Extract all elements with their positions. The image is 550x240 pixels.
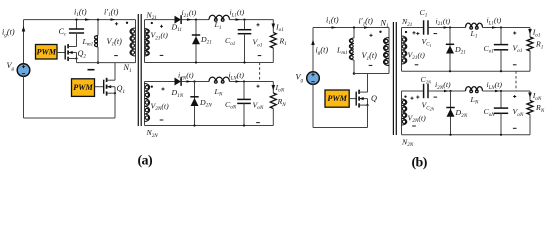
junction dot C_o1 bottom	[243, 61, 245, 63]
svg-text:i1(t): i1(t)	[326, 15, 339, 26]
wire: outputN bottom rail (b)	[402, 134, 531, 136]
plus mark V_oN (b)	[513, 95, 516, 98]
wire: (b) output1 top rail segment 1	[402, 27, 423, 29]
svg-text:PWM: PWM	[36, 47, 56, 56]
svg-text:ig(t): ig(t)	[2, 28, 15, 39]
wire: Q drain riser (b)	[367, 74, 369, 93]
wire: (b) output1 top rail segment 3	[483, 27, 531, 29]
svg-text:VC1: VC1	[422, 37, 432, 48]
junction dot L_m1 bottom	[97, 61, 100, 64]
svg-text:iL1(t): iL1(t)	[230, 8, 245, 19]
svg-text:N21: N21	[401, 17, 413, 28]
svg-text:i2N(t): i2N(t)	[435, 80, 451, 91]
svg-text:L1: L1	[214, 20, 222, 31]
wire: (b) left rail lower	[312, 84, 314, 127]
capacitor C_oN (b)	[494, 107, 508, 109]
svg-text:Q: Q	[371, 94, 377, 103]
minus mark V_2N (b)	[412, 125, 416, 127]
svg-text:V21(t): V21(t)	[151, 31, 169, 42]
svg-text:i21(t): i21(t)	[182, 8, 197, 19]
svg-text:R1: R1	[535, 40, 544, 51]
wire: Q source drop (b)	[367, 105, 369, 127]
current arrow i_21(t)	[187, 18, 192, 21]
junction dot D2N top (b)	[449, 90, 451, 92]
wire: (b) primary bottom wire	[354, 73, 389, 75]
secondary N_21 polarity dot (a)	[151, 22, 153, 24]
svg-text:iLN(t): iLN(t)	[229, 71, 245, 82]
current arrow I_o1 (b)	[528, 29, 532, 35]
junction dot C_oN top (b)	[500, 90, 502, 92]
transistor Q2	[57, 52, 65, 54]
wire: output1 top rail segment 2 (a)	[182, 19, 210, 21]
diode D2N (b)	[446, 107, 454, 109]
wire: (b) primary bottom rail	[313, 127, 368, 129]
svg-text:VoN: VoN	[253, 100, 264, 111]
PWM block 1 (a)	[36, 45, 58, 60]
wire: D2N branch (b)	[450, 91, 452, 135]
current arrow i_LN(t) (b)	[495, 90, 500, 93]
wire: outputN bottom rail (a)	[145, 125, 274, 127]
svg-text:IoN: IoN	[275, 83, 285, 94]
transformer primary winding spine (a)	[135, 20, 137, 63]
secondary winding N_21 coil (b)	[402, 36, 407, 64]
wire: (a) primary bottom wire	[77, 62, 136, 64]
svg-text:D1N: D1N	[171, 88, 184, 99]
diode D1N	[175, 78, 181, 86]
minus mark V_2N (a)	[160, 119, 164, 121]
svg-text:N2N: N2N	[146, 128, 159, 139]
secondary winding N_2N coil (b)	[402, 99, 407, 125]
wire: Q2 source to primary bottom wire	[76, 59, 78, 63]
svg-text:VC2N: VC2N	[422, 101, 435, 112]
svg-text:ig(t): ig(t)	[316, 45, 329, 56]
wire: (a) left rail upper	[23, 20, 25, 64]
svg-text:L1: L1	[470, 29, 478, 40]
svg-text:i′1(t): i′1(t)	[359, 17, 374, 28]
svg-text:i1(t): i1(t)	[74, 7, 87, 18]
current arrow I_oN (b)	[528, 93, 532, 99]
junction dot C_o1 top (b)	[500, 26, 502, 28]
wire: C_o1 branch lower (a)	[244, 34, 246, 63]
svg-text:Q1: Q1	[117, 84, 126, 95]
wire: D21 branch (b)	[449, 28, 451, 72]
wire: outputN top rail segment 3 (a)	[230, 81, 274, 83]
diode D2N	[190, 96, 198, 98]
wire: (b) outputN top rail segment 1	[402, 90, 423, 92]
svg-text:VoN: VoN	[513, 107, 524, 118]
junction dot D21 bottom (b)	[449, 70, 451, 72]
primary polarity dot (a)	[126, 22, 128, 24]
svg-text:PWM: PWM	[327, 94, 347, 103]
junction dot L_m1 top	[97, 19, 99, 21]
diode D21	[192, 34, 200, 36]
wire: Q1 drain riser	[114, 63, 116, 81]
wire: outputN right rail upper (b)	[529, 91, 531, 101]
wire: D2N branch (a)	[194, 82, 196, 126]
svg-text:(a): (a)	[138, 154, 153, 169]
svg-text:D2N: D2N	[199, 98, 212, 109]
wire: C_oN branch upper (b)	[500, 91, 502, 108]
wire: outputN right rail lower (a)	[272, 109, 274, 126]
minus mark V_21 (b)	[415, 64, 419, 66]
inductor L_m1 (a)	[94, 36, 98, 47]
junction dot D21 bottom	[195, 61, 197, 63]
svg-text:V21(t): V21(t)	[408, 50, 426, 61]
svg-text:V2N(t): V2N(t)	[408, 113, 427, 124]
plus mark V_o1 (b)	[513, 31, 516, 34]
filter inductor L1 (a)	[209, 15, 230, 19]
svg-text:LN: LN	[470, 95, 479, 106]
plus mark V_oN (a)	[256, 85, 259, 88]
minus mark V_1 (b)	[369, 64, 373, 66]
wire: output1 top rail segment 1 (a)	[145, 19, 175, 21]
capacitor C_oN (a)	[237, 98, 251, 100]
junction dot C_oN bottom	[243, 124, 245, 126]
junction dot C_oN bottom (b)	[500, 134, 502, 136]
junction dot C_o1 top	[243, 19, 245, 21]
svg-text:V1(t): V1(t)	[107, 37, 123, 48]
svg-text:iLN(t): iLN(t)	[487, 80, 503, 91]
plus mark V_1 (a)	[115, 22, 118, 25]
clamp capacitor C_c branch wire upper	[76, 20, 78, 29]
junction dot C_c top	[75, 19, 77, 21]
capacitor C_o1 (b)	[494, 44, 508, 46]
wire: (a) bottom rail	[24, 117, 116, 119]
current arrow i_1(t) (a)	[85, 18, 90, 21]
current arrow i_1p(t) (b)	[364, 26, 369, 29]
wire: (b) input top rail	[313, 27, 389, 29]
plus mark V_21 (a)	[160, 25, 163, 28]
wire: Q1 source to bottom rail	[114, 93, 116, 118]
wire: C_oN branch lower (a)	[243, 103, 245, 125]
svg-text:i21(t): i21(t)	[436, 16, 451, 27]
svg-text:N2N: N2N	[401, 137, 414, 148]
svg-text:RN: RN	[535, 103, 545, 114]
wire: (a) input top rail	[24, 19, 136, 21]
svg-text:i′1(t): i′1(t)	[104, 7, 119, 18]
junction dot D21 top	[195, 19, 197, 21]
svg-text:V1(t): V1(t)	[362, 51, 378, 62]
filter inductor L1 (b)	[466, 23, 483, 27]
plus mark V_2N (b)	[410, 97, 413, 100]
junction dot L_m1 bottom (b)	[353, 72, 356, 75]
wire: output1 top rail segment 3 (a)	[230, 19, 274, 21]
secondary N_2N polarity dot (b)	[404, 95, 406, 97]
svg-text:RN: RN	[277, 97, 287, 108]
junction dot D2N bottom	[193, 124, 195, 126]
minus mark V_C1 (b)	[434, 33, 438, 35]
svg-text:Io1: Io1	[532, 28, 541, 39]
wire: C_o1 branch upper (a)	[244, 20, 246, 30]
current arrow i_1(t) (b)	[332, 26, 337, 29]
diode D21 (b)	[446, 43, 454, 45]
wire: C_o1 branch upper (b)	[500, 28, 502, 45]
svg-text:i2N(t): i2N(t)	[178, 71, 194, 82]
load resistor R_N (a)	[270, 93, 276, 109]
wire: (b) output1 top rail segment 2	[429, 27, 466, 29]
voltage source V_g (a)	[17, 64, 30, 77]
secondary winding N_21 coil (a)	[145, 29, 150, 57]
wire: outputN right rail upper (a)	[272, 82, 274, 94]
svg-text:D21: D21	[200, 35, 212, 46]
current arrow i_21(t) (b)	[444, 26, 449, 29]
transistor Q (b)	[349, 98, 356, 100]
minus mark V_21 (a)	[160, 54, 164, 56]
wire: C_c to Q2 drain	[76, 33, 78, 47]
wire: outputN right rail lower (b)	[529, 115, 531, 135]
wire: L_m1 (b) bottom stub	[353, 60, 355, 74]
svg-text:N1: N1	[123, 63, 132, 74]
svg-text:D21: D21	[454, 45, 466, 56]
load resistor R1 (a)	[270, 33, 276, 49]
isolated minus mark below primary bottom wire	[88, 69, 95, 71]
junction dot L_m1 top (b)	[353, 26, 355, 28]
svg-text:Vg: Vg	[7, 61, 15, 72]
minus mark V_oN (b)	[513, 127, 517, 129]
dashed link between output stages (b)	[515, 71, 517, 91]
wire: (b) left rail upper	[312, 28, 314, 73]
wire: C_oN branch lower (b)	[500, 113, 502, 134]
PWM block 2 (a)	[72, 79, 95, 97]
dashed link between output stages (a)	[259, 63, 261, 82]
wire: L_m1 bottom stub	[97, 47, 99, 63]
plus mark V_CN (b)	[416, 96, 419, 99]
magnetizing inductor L_m1 (b) top stub	[353, 28, 355, 39]
svg-text:LN: LN	[214, 87, 223, 98]
current arrow i_2N(t)	[187, 80, 192, 83]
minus mark V_oN (a)	[256, 122, 260, 124]
secondary winding N_2N spine (b)	[401, 91, 403, 135]
svg-text:C1: C1	[420, 8, 428, 19]
current arrow i_1p(t) (a)	[111, 18, 116, 21]
svg-text:Io1: Io1	[275, 22, 284, 33]
plus mark V_C1 (b)	[416, 32, 419, 35]
junction dot C_oN top	[243, 80, 245, 82]
svg-text:IoN: IoN	[532, 91, 542, 102]
plus mark V_o1 (a)	[256, 23, 259, 26]
secondary winding N_21 spine (b)	[401, 28, 403, 72]
secondary N_2N polarity dot (a)	[151, 85, 153, 87]
svg-text:D11: D11	[171, 22, 183, 33]
svg-text:iL1(t): iL1(t)	[487, 16, 502, 27]
transformer core (b)	[392, 22, 394, 135]
minus mark V_o1 (a)	[258, 55, 262, 57]
transformer primary coil (b)	[384, 38, 389, 66]
plus mark V_2N (a)	[161, 87, 164, 90]
current arrow i_LN(t)	[236, 80, 241, 83]
svg-text:C2N: C2N	[421, 75, 433, 85]
secondary winding N_2N coil (a)	[145, 84, 150, 122]
load resistor R1 (b)	[527, 37, 533, 51]
svg-text:D2N: D2N	[455, 108, 468, 119]
svg-text:Lm1: Lm1	[82, 37, 94, 48]
svg-text:(b): (b)	[412, 156, 428, 171]
wire: D21 branch (a)	[195, 20, 197, 63]
wire: C_o1 branch lower (b)	[500, 50, 502, 71]
secondary winding N_21 spine (a)	[144, 20, 146, 63]
svg-text:CoN: CoN	[484, 107, 496, 118]
wire: (b) outputN top rail segment 2	[429, 90, 466, 92]
svg-text:Co1: Co1	[225, 36, 236, 47]
series capacitor C1 (b)	[423, 20, 425, 34]
junction dot D2N top	[193, 80, 195, 82]
plus mark V_21 (b)	[412, 31, 415, 34]
load resistor R_N (b)	[527, 101, 533, 115]
svg-text:Vo1: Vo1	[513, 43, 523, 54]
transformer primary spine (b)	[388, 28, 390, 74]
series capacitor C_N (b)	[423, 84, 425, 98]
current arrow I_o1 (a)	[272, 24, 276, 30]
wire: output1 bottom rail (a)	[145, 62, 274, 64]
svg-text:Q2: Q2	[78, 49, 87, 60]
wire: (b) outputN top rail segment 3	[483, 90, 531, 92]
primary polarity dot (b)	[379, 31, 381, 33]
junction dot D2N bottom (b)	[449, 134, 451, 136]
minus mark V_CN (b)	[434, 96, 438, 98]
capacitor C_o1 (a)	[238, 29, 252, 31]
current arrow i_L1(t) (b)	[492, 26, 497, 29]
svg-text:PWM: PWM	[73, 83, 93, 92]
svg-text:R1: R1	[279, 36, 288, 47]
wire: outputN top rail segment 2 (a)	[182, 81, 210, 83]
wire: outputN top rail segment 1 (a)	[145, 81, 175, 83]
svg-text:Vg: Vg	[296, 73, 304, 84]
svg-text:CoN: CoN	[225, 100, 237, 111]
current arrow i_g(t) (a)	[22, 26, 26, 32]
wire: output1 right rail upper (a)	[272, 20, 274, 33]
diode D11	[175, 16, 181, 24]
filter inductor L_N (b)	[466, 87, 483, 91]
svg-text:Vo1: Vo1	[253, 38, 263, 49]
svg-text:Co1: Co1	[484, 44, 495, 55]
wire: output1 right rail lower (a)	[272, 48, 274, 63]
minus mark V_o1 (b)	[513, 64, 517, 66]
voltage source V_g (b)	[307, 72, 320, 85]
junction dot D21 top (b)	[449, 26, 451, 28]
minus mark V_1 (a)	[114, 55, 118, 57]
filter inductor L_N (a)	[209, 77, 230, 81]
wire: output1 bottom rail (b)	[402, 70, 531, 72]
secondary winding N_2N spine (a)	[144, 82, 146, 126]
wire: output1 right rail lower (b)	[529, 51, 531, 71]
PWM block (b)	[325, 90, 349, 107]
wire: output1 right rail upper (b)	[529, 28, 531, 38]
transistor Q1	[95, 86, 104, 88]
svg-text:V2N(t): V2N(t)	[151, 101, 170, 112]
plus mark V_1 (b)	[369, 34, 372, 37]
current arrow i_g(t) (b)	[311, 40, 315, 46]
current arrow i_2N(t) (b)	[444, 90, 449, 93]
wire: (a) left rail lower	[23, 76, 25, 118]
magnetizing inductor L_m1 (a) top stub	[97, 20, 99, 36]
secondary N_21 polarity dot (b)	[405, 31, 407, 33]
capacitor C_c	[69, 28, 84, 30]
svg-text:Lm1: Lm1	[336, 45, 348, 56]
junction dot C_o1 bottom (b)	[500, 70, 502, 72]
inductor L_m1 (b)	[349, 38, 354, 60]
transformer core (a)	[137, 14, 139, 126]
svg-text:Cc: Cc	[59, 27, 67, 38]
current arrow i_L1(t)	[236, 18, 241, 21]
current arrow I_oN (a)	[272, 85, 276, 91]
wire: C_oN branch upper (a)	[243, 82, 245, 100]
transformer primary winding coil (a)	[130, 28, 135, 56]
